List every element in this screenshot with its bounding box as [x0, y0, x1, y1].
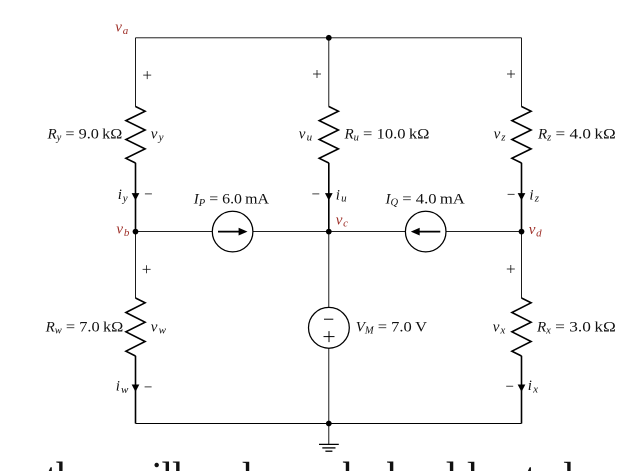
node junction dot at top (va bus / Ru): [326, 35, 332, 41]
node vc dot: [326, 229, 332, 235]
plus sign branch Rz: [507, 70, 515, 78]
svg-text:vz: vz: [494, 126, 507, 143]
current arrow iu (down): [325, 193, 333, 200]
wire right vertical upper (va bus to Rz): [521, 38, 523, 107]
voltage source VM internal plus: [324, 336, 335, 338]
current source IQ internal arrow (points left): [418, 231, 440, 233]
wire middle bus IQ to vd: [446, 231, 522, 233]
minus sign branch Rw: [145, 386, 152, 388]
svg-text:Rw = 7.0 kΩ: Rw = 7.0 kΩ: [45, 319, 124, 336]
wire middle bus IP to vc: [253, 231, 329, 233]
svg-text:Rz = 4.0 kΩ: Rz = 4.0 kΩ: [537, 126, 616, 143]
wire bottom bus: [136, 423, 522, 425]
resistor Ry body: [126, 107, 145, 164]
resistor Ru body: [319, 107, 338, 164]
resistor Rz body: [512, 107, 531, 164]
current arrow ix (down): [518, 385, 526, 392]
svg-text:iz: iz: [529, 187, 539, 204]
node vd dot: [519, 229, 525, 235]
node junction dot at bottom (ground bus): [326, 421, 332, 427]
wire middle vertical upper (top junction to Ru): [328, 38, 330, 107]
wire left vertical upper (va to Ry): [135, 38, 137, 107]
svg-text:ix: ix: [528, 378, 538, 395]
svg-text:VM = 7.0 V: VM = 7.0 V: [356, 319, 428, 336]
wire middle bus vc to IQ: [329, 231, 406, 233]
svg-text:IP = 6.0 mA: IP = 6.0 mA: [193, 192, 269, 209]
current source U IP circle: [212, 211, 253, 252]
plus sign branch Ry: [143, 71, 151, 79]
wire right vertical middle (vd to Rx): [521, 232, 523, 299]
resistor Rw body: [126, 298, 145, 356]
wire middle bus vb to IP: [136, 231, 213, 233]
minus sign branch Rx: [506, 385, 513, 387]
resistor Rx body: [512, 298, 531, 356]
current source U IQ circle: [405, 211, 446, 252]
current arrow iy (down): [132, 193, 140, 200]
minus sign branch Ru: [312, 193, 319, 195]
wire Ru lead to vc (thick, carries iu arrow): [328, 163, 330, 232]
wire Rx lead to bottom bus (thick, carries ix arrow): [521, 356, 523, 424]
voltage source VM internal minus: [324, 318, 333, 320]
wire Rw lead to bottom bus (thick, carries iw arrow): [135, 356, 137, 424]
wire top bus from node a: [136, 37, 522, 39]
ground symbol: [319, 443, 339, 445]
svg-text:vw: vw: [151, 319, 167, 336]
wire middle vertical (vc to VM top): [328, 232, 330, 308]
wire Ry lead to vb (thick, carries iy arrow): [135, 163, 137, 232]
wire Rz lead to vd (thick, carries iz arrow): [521, 163, 523, 232]
node vb dot: [133, 229, 139, 235]
svg-text:vc: vc: [336, 212, 348, 229]
plus sign branch Rw: [143, 265, 151, 273]
svg-text:iw: iw: [116, 379, 129, 396]
plus sign branch Ru: [313, 70, 321, 78]
svg-text:Ru = 10.0 kΩ: Ru = 10.0 kΩ: [344, 126, 430, 143]
wire left vertical middle (vb to Rw): [135, 232, 137, 299]
svg-text:vx: vx: [493, 319, 506, 336]
wire ground stub: [328, 424, 330, 445]
svg-text:vd: vd: [529, 222, 542, 239]
svg-text:iy: iy: [118, 187, 128, 204]
svg-text:IQ = 4.0 mA: IQ = 4.0 mA: [385, 191, 465, 208]
svg-text:vy: vy: [151, 126, 164, 143]
svg-text:than will under such should no: than will under such should noted: [46, 455, 574, 471]
svg-text:iu: iu: [336, 187, 347, 204]
current source IP internal arrow (points right): [218, 231, 240, 233]
current arrow iz (down): [518, 193, 526, 200]
svg-text:va: va: [115, 20, 128, 37]
plus sign branch Rx: [507, 265, 515, 273]
current arrow iw (down): [132, 385, 140, 392]
wire VM bottom to bottom junction: [328, 348, 330, 423]
svg-text:Rx = 3.0 kΩ: Rx = 3.0 kΩ: [536, 319, 616, 336]
svg-text:vb: vb: [116, 222, 129, 239]
minus sign branch Ry: [145, 193, 152, 195]
voltage source VM circle: [309, 307, 350, 348]
svg-text:vu: vu: [299, 126, 313, 143]
svg-text:Ry = 9.0 kΩ: Ry = 9.0 kΩ: [47, 126, 123, 143]
minus sign branch Rz: [508, 193, 515, 195]
